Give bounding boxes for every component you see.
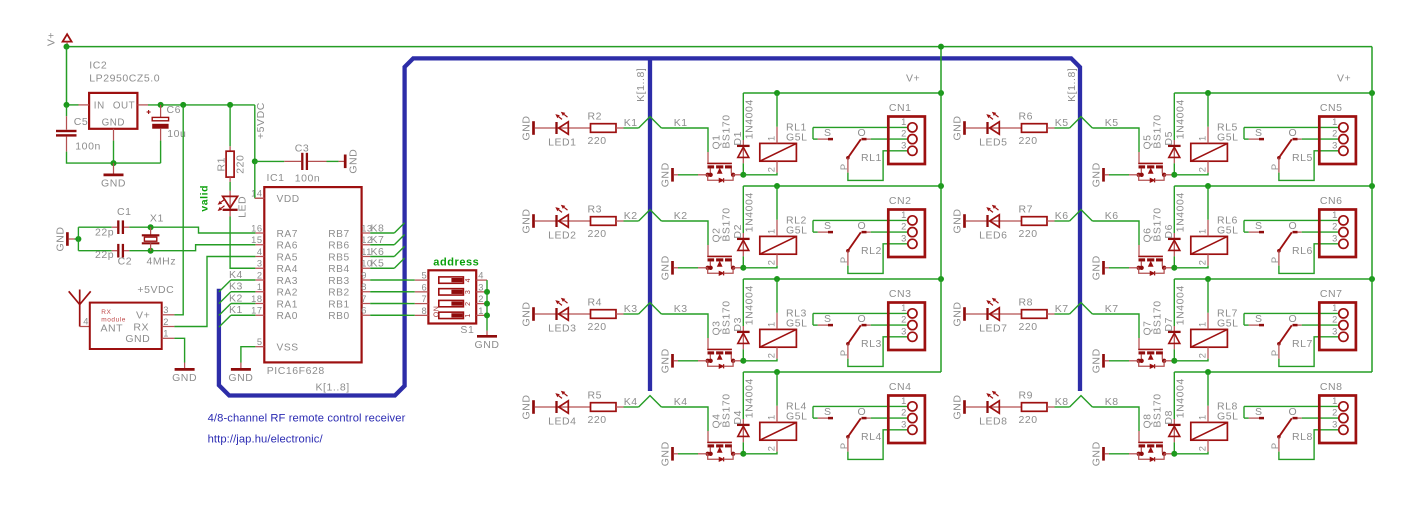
- svg-text:K[1..8]: K[1..8]: [316, 382, 350, 394]
- svg-text:+5VDC: +5VDC: [255, 102, 267, 139]
- wire contact O to CN3 pin 2: [871, 324, 908, 326]
- wire net K1 to gate Q1: [661, 128, 708, 152]
- svg-text:1: 1: [1197, 135, 1207, 141]
- capacitor C1 22p: [78, 206, 131, 239]
- svg-text:8: 8: [421, 306, 427, 316]
- svg-text:S: S: [1255, 313, 1263, 325]
- junction drain node D6: [1171, 265, 1177, 271]
- svg-text:LED6: LED6: [979, 230, 1007, 242]
- svg-text:O: O: [858, 313, 867, 325]
- svg-text:D8: D8: [1163, 410, 1175, 425]
- svg-text:C6: C6: [167, 104, 182, 116]
- svg-text:2: 2: [1197, 260, 1207, 266]
- svg-text:3: 3: [257, 259, 263, 269]
- antenna: [69, 290, 91, 327]
- svg-text:2: 2: [901, 222, 907, 232]
- svg-text:X1: X1: [150, 212, 164, 224]
- wire net K7 to gate Q7: [1092, 314, 1139, 338]
- svg-text:5: 5: [257, 337, 263, 347]
- svg-text:G5L: G5L: [786, 318, 808, 330]
- svg-text:220: 220: [235, 155, 247, 174]
- svg-text:RL5: RL5: [1292, 152, 1313, 164]
- svg-text:220: 220: [1019, 135, 1038, 147]
- net label +5VDC (RX): [137, 284, 174, 296]
- svg-text:1N4004: 1N4004: [1175, 285, 1187, 325]
- svg-text:K4: K4: [624, 396, 638, 408]
- wire net K3 (bus to RA2): [219, 281, 256, 304]
- svg-text:2: 2: [1332, 408, 1338, 418]
- svg-text:1: 1: [766, 414, 776, 420]
- svg-text:K6: K6: [371, 246, 385, 258]
- connector CN3: [888, 288, 925, 350]
- junction relay RL5 supply: [1205, 90, 1211, 96]
- svg-text:O: O: [858, 127, 867, 139]
- svg-text:RA6: RA6: [277, 241, 298, 252]
- svg-text:3: 3: [163, 305, 169, 315]
- svg-text:2: 2: [766, 260, 776, 266]
- svg-text:K7: K7: [1055, 303, 1069, 315]
- wire contact O to CN2 pin 2: [871, 231, 908, 233]
- svg-text:P: P: [1270, 349, 1280, 356]
- svg-text:http://jap.hu/electronic/: http://jap.hu/electronic/: [208, 434, 324, 446]
- svg-text:K1: K1: [229, 304, 243, 316]
- junction drain node D3: [740, 358, 746, 364]
- transistor Q3 BS170: [698, 300, 741, 368]
- svg-text:RB0: RB0: [328, 311, 349, 322]
- ground (crystal, rotated): [54, 227, 78, 252]
- dip switch S1 (address): [415, 270, 487, 336]
- wire contact O to CN7 pin 2: [1302, 324, 1339, 326]
- wire RX data to RA5: [174, 257, 255, 327]
- wire contact O to CN4 pin 2: [871, 417, 908, 419]
- LED LED3: [535, 298, 591, 335]
- wire VDD branch: [254, 105, 256, 161]
- junction C6 top: [158, 102, 164, 108]
- svg-text:O: O: [1289, 220, 1298, 232]
- svg-text:K[1..8]: K[1..8]: [1066, 68, 1078, 102]
- junction relay RL3 supply: [774, 276, 780, 282]
- svg-text:CN1: CN1: [889, 102, 912, 114]
- svg-text:GND: GND: [952, 302, 964, 327]
- svg-text:G5L: G5L: [786, 411, 808, 423]
- svg-text:220: 220: [1019, 228, 1038, 240]
- svg-text:RB4: RB4: [328, 264, 349, 275]
- wire V+ column 2: [1371, 47, 1373, 372]
- wire net K2 (bus to RA1): [219, 292, 256, 315]
- svg-text:1N4004: 1N4004: [744, 99, 756, 139]
- resistor R6 220: [1019, 111, 1055, 148]
- svg-text:RL7: RL7: [1292, 338, 1313, 350]
- relay coil RL5 G5L: [1191, 93, 1239, 173]
- wire contact P to CN4 pin 3: [848, 430, 908, 460]
- relay coil RL3 G5L: [760, 279, 808, 359]
- svg-text:1: 1: [1332, 303, 1338, 313]
- connector CN5: [1319, 102, 1356, 164]
- junction drain node D7: [1171, 358, 1177, 364]
- svg-text:RB6: RB6: [328, 241, 349, 252]
- svg-text:VDD: VDD: [277, 194, 300, 205]
- diode D8 1N4004: [1163, 372, 1187, 454]
- svg-text:LED1: LED1: [548, 137, 576, 149]
- junction IN: [64, 102, 70, 108]
- svg-text:G5L: G5L: [1217, 225, 1239, 237]
- ground (LED8, rotated): [952, 395, 965, 420]
- svg-text:3: 3: [901, 233, 907, 243]
- voltage regulator IC2 LP2950CZ5.0: [79, 60, 161, 141]
- svg-text:GND: GND: [347, 149, 359, 174]
- wire valid LED to RA4: [230, 216, 255, 268]
- svg-text:220: 220: [588, 228, 607, 240]
- junction RX V+ branch: [180, 102, 186, 108]
- IC U1 PIC16F628 (IC1): [251, 172, 373, 377]
- svg-text:1: 1: [766, 228, 776, 234]
- svg-text:6: 6: [361, 306, 367, 316]
- svg-text:1: 1: [1197, 414, 1207, 420]
- svg-text:RB2: RB2: [328, 288, 349, 299]
- svg-text:100n: 100n: [75, 140, 101, 152]
- svg-text:4: 4: [257, 247, 263, 257]
- wire net K8 (RB7 to bus): [370, 222, 404, 234]
- svg-text:6: 6: [421, 282, 427, 292]
- svg-text:22p: 22p: [95, 227, 114, 239]
- svg-text:R3: R3: [588, 204, 603, 216]
- svg-text:LED2: LED2: [548, 230, 576, 242]
- wire contact S to CN4 pin 1: [813, 405, 908, 407]
- svg-text:CN7: CN7: [1320, 288, 1343, 300]
- relay coil RL7 G5L: [1191, 279, 1239, 359]
- svg-text:O: O: [1289, 406, 1298, 418]
- svg-text:OUT: OUT: [113, 101, 135, 112]
- crystal X1 4MHz: [142, 212, 176, 267]
- svg-text:2: 2: [1332, 129, 1338, 139]
- svg-text:S: S: [824, 313, 832, 325]
- wire net K6 to gate Q6: [1092, 221, 1139, 245]
- svg-text:GND: GND: [102, 117, 125, 128]
- wire contact P to CN3 pin 3: [848, 337, 908, 367]
- bus label K[1..8] (left loop): [316, 382, 350, 394]
- wire net K2 to gate Q2: [661, 221, 708, 245]
- svg-text:S: S: [824, 127, 832, 139]
- wire V+ rail channel 3: [743, 278, 941, 280]
- svg-text:1: 1: [1197, 228, 1207, 234]
- wire RX V+ to +5VDC: [174, 105, 183, 315]
- svg-text:RX: RX: [101, 309, 111, 316]
- svg-text:1: 1: [766, 135, 776, 141]
- wire net K5 to gate Q5: [1092, 128, 1139, 152]
- wire net K4 to bus tap: [624, 396, 688, 408]
- svg-text:GND: GND: [101, 178, 126, 190]
- svg-text:BS170: BS170: [721, 207, 733, 241]
- svg-text:R1: R1: [215, 157, 227, 172]
- svg-text:K5: K5: [371, 258, 385, 270]
- ground (LED6, rotated): [952, 209, 965, 234]
- wire net RB1 to S1 pin 7: [370, 303, 415, 305]
- connector CN8: [1319, 381, 1356, 443]
- junction rail col 2 row 1: [1369, 90, 1375, 96]
- svg-text:K4: K4: [674, 396, 688, 408]
- svg-text:GND: GND: [172, 372, 197, 384]
- svg-text:K7: K7: [1105, 303, 1119, 315]
- svg-text:R7: R7: [1019, 204, 1034, 216]
- svg-text:8: 8: [361, 282, 367, 292]
- relay contact RL4: [813, 406, 882, 451]
- LED LED8: [966, 391, 1022, 428]
- ground (RX): [172, 363, 197, 385]
- wire net K5 (RB4 to bus): [370, 258, 404, 270]
- svg-text:D3: D3: [732, 317, 744, 332]
- relay coil RL2 G5L: [760, 186, 808, 266]
- wire contact S to CN3 pin 1: [813, 312, 908, 314]
- wire drain node to relay: [743, 266, 777, 268]
- svg-text:7: 7: [361, 294, 367, 304]
- svg-text:O: O: [858, 220, 867, 232]
- svg-text:LED8: LED8: [979, 416, 1007, 428]
- svg-text:GND: GND: [521, 302, 533, 327]
- transistor Q8 BS170: [1129, 393, 1172, 461]
- svg-text:K7: K7: [371, 234, 385, 246]
- svg-text:O: O: [1289, 313, 1298, 325]
- svg-text:ANT: ANT: [101, 322, 124, 334]
- wire net RB0 to S1 pin 8: [370, 314, 415, 316]
- svg-text:BS170: BS170: [1152, 114, 1164, 148]
- relay contact RL7: [1244, 313, 1313, 358]
- wire net K3 to bus tap: [624, 303, 688, 315]
- wire V+ rail channel 2: [743, 185, 941, 187]
- svg-text:2: 2: [901, 408, 907, 418]
- wire contact P to CN5 pin 3: [1279, 151, 1339, 181]
- resistor R3 220: [588, 204, 624, 241]
- transistor Q2 BS170: [698, 207, 741, 275]
- relay coil RL1 G5L: [760, 93, 808, 173]
- svg-text:D2: D2: [732, 224, 744, 239]
- svg-text:V+: V+: [136, 310, 150, 322]
- svg-text:RA7: RA7: [277, 229, 298, 240]
- wire net K7 (RB6 to bus): [370, 234, 404, 246]
- svg-text:GND: GND: [952, 116, 964, 141]
- ground (LED7, rotated): [952, 302, 965, 327]
- svg-text:K1: K1: [674, 117, 688, 129]
- svg-text:2: 2: [1332, 222, 1338, 232]
- svg-text:R9: R9: [1019, 390, 1034, 402]
- wire IN net: [67, 104, 79, 106]
- svg-text:K3: K3: [229, 281, 243, 293]
- wire drain node to relay: [1174, 452, 1208, 454]
- svg-text:S: S: [1255, 220, 1263, 232]
- bus label K[1..8] (bus 1, rotated): [635, 68, 647, 102]
- transistor Q5 BS170: [1129, 114, 1172, 182]
- wire contact S to CN5 pin 1: [1244, 126, 1339, 128]
- svg-text:2: 2: [1197, 167, 1207, 173]
- svg-text:GND: GND: [521, 209, 533, 234]
- svg-text:1N4004: 1N4004: [744, 378, 756, 418]
- ground (LED4, rotated): [521, 395, 534, 420]
- svg-text:3: 3: [901, 326, 907, 336]
- svg-text:V+: V+: [906, 72, 920, 84]
- svg-text:22p: 22p: [95, 249, 114, 261]
- svg-text:K8: K8: [1055, 396, 1069, 408]
- svg-text:BS170: BS170: [1152, 300, 1164, 334]
- svg-text:LP2950CZ5.0: LP2950CZ5.0: [89, 73, 160, 85]
- svg-text:IC2: IC2: [89, 60, 107, 72]
- svg-text:S: S: [1255, 127, 1263, 139]
- junction drain node D1: [740, 172, 746, 178]
- svg-text:RA1: RA1: [277, 299, 298, 310]
- wire drain node to relay: [1174, 173, 1208, 175]
- wire net K8 to gate Q8: [1092, 407, 1139, 431]
- svg-text:P: P: [839, 349, 849, 356]
- svg-text:P: P: [839, 442, 849, 449]
- svg-text:G5L: G5L: [786, 225, 808, 237]
- wire net RB3 to S1 pin 5: [370, 279, 415, 281]
- junction rail col 1 row 1: [938, 90, 944, 96]
- diode D7 1N4004: [1163, 279, 1187, 361]
- svg-text:K6: K6: [1105, 210, 1119, 222]
- svg-text:4: 4: [83, 317, 89, 327]
- svg-text:1: 1: [163, 329, 169, 339]
- wire net K8 to bus tap: [1055, 396, 1119, 408]
- wire V+ column 1: [940, 47, 942, 372]
- svg-text:2: 2: [901, 129, 907, 139]
- junction drain node D2: [740, 265, 746, 271]
- junction X1 bottom: [148, 248, 154, 254]
- svg-text:16: 16: [251, 223, 262, 233]
- ground (LED2, rotated): [521, 209, 534, 234]
- svg-text:220: 220: [1019, 414, 1038, 426]
- svg-text:RL1: RL1: [861, 152, 882, 164]
- bus K[1..8]: [219, 58, 1080, 395]
- svg-text:17: 17: [251, 306, 262, 316]
- svg-text:P: P: [1270, 256, 1280, 263]
- wire OSC2 net (C2 to RA6): [129, 245, 255, 251]
- svg-text:G5L: G5L: [1217, 318, 1239, 330]
- ground (Q2, rotated): [660, 255, 699, 280]
- svg-text:C5: C5: [74, 116, 89, 128]
- svg-text:1N4004: 1N4004: [1175, 99, 1187, 139]
- resistor R1 220: [215, 105, 246, 182]
- diode D1 1N4004: [732, 93, 756, 175]
- LED valid: [198, 182, 248, 218]
- wire drain node to relay: [743, 173, 777, 175]
- svg-text:RX: RX: [133, 321, 149, 333]
- svg-text:CN2: CN2: [889, 195, 912, 207]
- svg-text:D1: D1: [732, 131, 744, 146]
- svg-text:GND: GND: [660, 441, 672, 466]
- relay coil RL4 G5L: [760, 372, 808, 452]
- svg-text:K5: K5: [1055, 117, 1069, 129]
- svg-text:2: 2: [1197, 446, 1207, 452]
- svg-text:C3: C3: [295, 142, 310, 154]
- svg-text:3: 3: [901, 140, 907, 150]
- svg-text:1: 1: [1197, 321, 1207, 327]
- junction S1 pin1: [484, 312, 490, 318]
- svg-text:RA5: RA5: [277, 252, 298, 263]
- ground (C3, rotated): [345, 149, 359, 174]
- svg-text:K6: K6: [1055, 210, 1069, 222]
- svg-text:R2: R2: [588, 111, 603, 123]
- bus label K[1..8] (bus 2, rotated): [1066, 68, 1078, 102]
- LED LED2: [535, 205, 591, 242]
- relay coil RL6 G5L: [1191, 186, 1239, 266]
- ground (LED5, rotated): [952, 116, 965, 141]
- junction at V+ symbol: [64, 44, 70, 50]
- svg-text:S: S: [824, 406, 832, 418]
- svg-text:1: 1: [1332, 396, 1338, 406]
- resistor R9 220: [1019, 390, 1055, 427]
- svg-text:K5: K5: [1105, 117, 1119, 129]
- junction relay RL4 supply: [774, 369, 780, 375]
- svg-text:RL3: RL3: [861, 338, 882, 350]
- LED LED7: [966, 298, 1022, 335]
- svg-text:3: 3: [465, 290, 472, 294]
- relay contact RL2: [813, 220, 882, 265]
- LED LED4: [535, 391, 591, 428]
- svg-text:GND: GND: [660, 162, 672, 187]
- svg-text:BS170: BS170: [1152, 393, 1164, 427]
- svg-text:4/8-channel RF remote control: 4/8-channel RF remote control receiver: [208, 413, 406, 425]
- svg-text:1: 1: [901, 210, 907, 220]
- connector CN1: [888, 102, 925, 164]
- svg-text:RA2: RA2: [277, 288, 298, 299]
- wire contact P to CN8 pin 3: [1279, 430, 1339, 460]
- wire contact P to CN2 pin 3: [848, 244, 908, 274]
- svg-text:RA4: RA4: [277, 264, 298, 275]
- resistor R2 220: [588, 111, 624, 148]
- svg-text:1: 1: [465, 313, 472, 317]
- svg-text:2: 2: [1197, 353, 1207, 359]
- svg-text:K[1..8]: K[1..8]: [635, 68, 647, 102]
- caption url: [208, 434, 324, 446]
- wire V+ rail channel 7: [1174, 278, 1372, 280]
- diode D3 1N4004: [732, 279, 756, 361]
- relay contact RL6: [1244, 220, 1313, 265]
- wire net K2 to bus tap: [624, 210, 688, 222]
- svg-text:IC1: IC1: [267, 172, 285, 184]
- svg-text:RA3: RA3: [277, 276, 298, 287]
- wire VSS to ground: [241, 347, 256, 363]
- svg-text:D6: D6: [1163, 224, 1175, 239]
- wire contact S to CN1 pin 1: [813, 126, 908, 128]
- junction drain node D5: [1171, 172, 1177, 178]
- svg-text:LED: LED: [237, 196, 249, 218]
- svg-text:VSS: VSS: [277, 343, 299, 354]
- svg-text:2: 2: [257, 270, 263, 280]
- svg-text:D5: D5: [1163, 131, 1175, 146]
- svg-text:G5L: G5L: [1217, 411, 1239, 423]
- svg-text:4: 4: [465, 278, 472, 282]
- svg-text:GND: GND: [125, 333, 150, 345]
- wire contact P to CN7 pin 3: [1279, 337, 1339, 367]
- svg-text:LED4: LED4: [548, 416, 576, 428]
- svg-text:220: 220: [1019, 321, 1038, 333]
- svg-text:ON: ON: [434, 306, 441, 318]
- ground (regulator): [101, 163, 126, 190]
- diode D6 1N4004: [1163, 186, 1187, 268]
- svg-text:K8: K8: [1105, 396, 1119, 408]
- svg-text:D4: D4: [732, 410, 744, 425]
- svg-text:LED5: LED5: [979, 137, 1007, 149]
- svg-text:BS170: BS170: [1152, 207, 1164, 241]
- resistor R7 220: [1019, 204, 1055, 241]
- svg-text:K2: K2: [674, 210, 688, 222]
- junction crystal gnd: [75, 236, 81, 242]
- svg-text:R4: R4: [588, 297, 603, 309]
- svg-text:3: 3: [1332, 140, 1338, 150]
- ground (LED3, rotated): [521, 302, 534, 327]
- svg-text:P: P: [839, 163, 849, 170]
- svg-text:RB3: RB3: [328, 276, 349, 287]
- svg-text:GND: GND: [1091, 255, 1103, 280]
- svg-text:K3: K3: [624, 303, 638, 315]
